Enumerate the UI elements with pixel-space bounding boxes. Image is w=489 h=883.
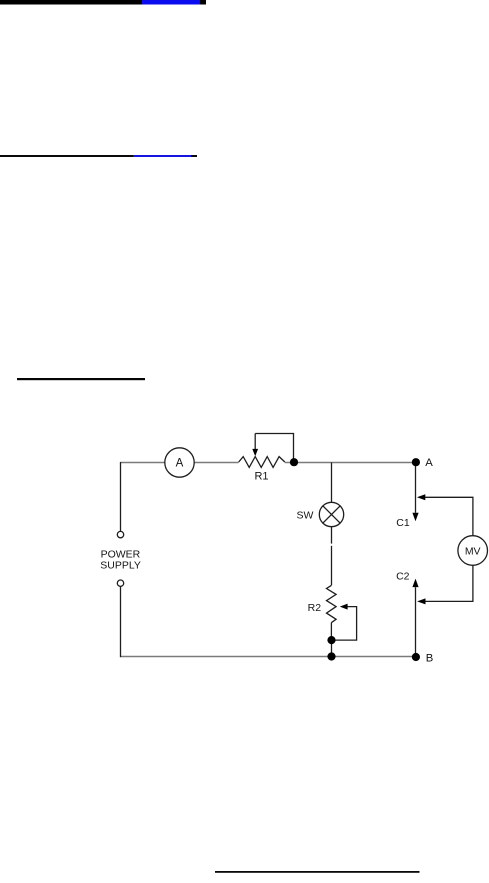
svg-text:R1: R1: [254, 471, 268, 483]
svg-text:B: B: [426, 653, 434, 665]
svg-text:MV: MV: [465, 545, 481, 557]
svg-text:C2: C2: [396, 570, 410, 582]
svg-text:SUPPLY: SUPPLY: [100, 560, 141, 572]
svg-text:R2: R2: [308, 602, 322, 614]
svg-text:C1: C1: [396, 517, 410, 529]
svg-text:SW: SW: [297, 509, 314, 521]
svg-text:A: A: [176, 457, 184, 469]
svg-text:A: A: [425, 457, 433, 469]
